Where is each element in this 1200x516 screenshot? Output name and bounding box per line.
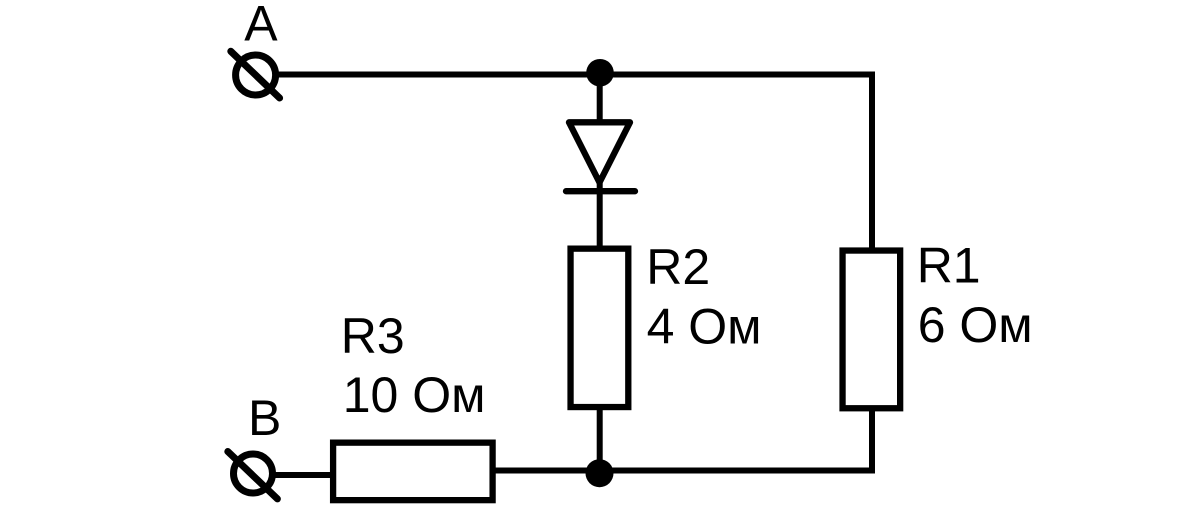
svg-text:A: A bbox=[244, 0, 278, 51]
wire: top node down to diode anode bbox=[597, 73, 603, 122]
terminal B bbox=[228, 452, 278, 499]
wire: terminal B to R3 left bbox=[272, 472, 333, 478]
svg-text:R1: R1 bbox=[917, 237, 981, 293]
junction bottom node bbox=[586, 459, 614, 487]
junction top node bbox=[586, 59, 614, 87]
svg-text:10 Ом: 10 Ом bbox=[343, 367, 486, 423]
diode VD1 triangle bbox=[569, 122, 630, 182]
svg-text:6 Ом: 6 Ом bbox=[918, 297, 1033, 353]
wire right vertical: corner to R1 top bbox=[869, 72, 875, 251]
svg-text:R2: R2 bbox=[646, 239, 710, 295]
wire: diode cathode to R2 top bbox=[597, 183, 603, 249]
wire right vertical: R1 bottom to bottom-right corner bbox=[869, 408, 875, 471]
resistor R2 body bbox=[571, 249, 629, 407]
resistor R1 body bbox=[843, 251, 901, 409]
svg-text:4 Ом: 4 Ом bbox=[647, 298, 762, 354]
svg-text:B: B bbox=[248, 390, 281, 446]
wire top: terminal A to top-right corner bbox=[276, 72, 875, 78]
wire: R2 bottom to bottom node bbox=[597, 406, 603, 472]
resistor R3 body bbox=[333, 443, 493, 501]
svg-text:R3: R3 bbox=[341, 308, 405, 364]
diode cathode bar bbox=[566, 188, 635, 194]
terminal A bbox=[231, 51, 280, 98]
wire bottom: R3 right to bottom-right corner bbox=[492, 468, 875, 474]
